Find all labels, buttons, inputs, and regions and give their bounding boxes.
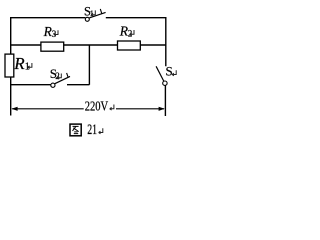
svg-text:2: 2 (55, 71, 60, 81)
svg-text:220V: 220V (85, 99, 109, 114)
svg-text:21: 21 (87, 122, 97, 138)
svg-text:S: S (166, 63, 173, 78)
svg-text:1: 1 (90, 8, 94, 18)
svg-text:R: R (13, 54, 25, 73)
